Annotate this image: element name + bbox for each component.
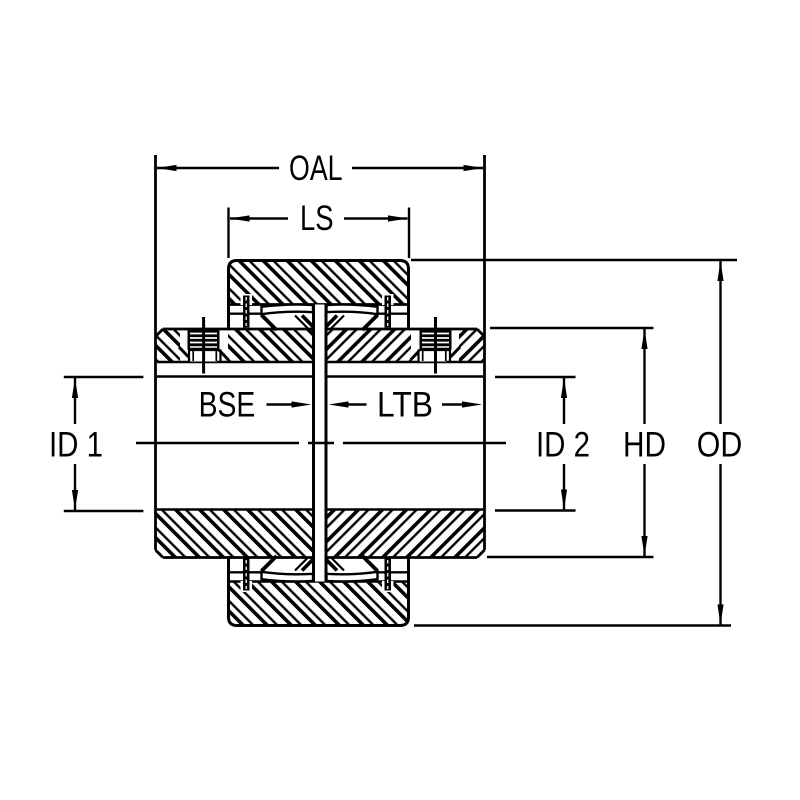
cavity line B bottom <box>229 571 263 573</box>
bottom cover inner line <box>229 580 409 583</box>
OD dimension <box>411 260 742 626</box>
bolt left threads <box>188 330 220 350</box>
tooth diagonal D2 top-right <box>331 316 344 329</box>
tooth diagonal D1 bottom-right <box>363 556 378 571</box>
svg-text:ID 2: ID 2 <box>536 426 590 465</box>
LS dimension <box>229 199 410 258</box>
cavity line B top <box>229 313 263 315</box>
halo hatch stubs left <box>179 347 189 357</box>
hub left face <box>154 155 157 550</box>
tooth diagonal D1 top-right <box>363 315 378 330</box>
LTB label and arrows <box>329 385 483 424</box>
bolt right threads <box>420 330 452 350</box>
tooth diagonal D2 bottom-left <box>295 558 308 571</box>
chamfer top-left <box>156 329 164 337</box>
ID 1 dimension <box>49 377 143 511</box>
cavity line A top <box>229 303 408 305</box>
chamfer bottom-left <box>156 550 164 558</box>
top cover hatched body <box>229 261 409 305</box>
flange bottom edge line <box>163 556 312 559</box>
chamfer bottom-right <box>477 550 485 558</box>
seal slot white top-left <box>241 294 253 305</box>
svg-text:OAL: OAL <box>289 149 343 188</box>
tooth diagonal D1 top-left <box>262 315 277 330</box>
bolt right centerline <box>434 317 437 374</box>
seal bar top-right <box>385 296 392 328</box>
hub flange bottom-right hatch <box>328 510 485 558</box>
svg-text:HD: HD <box>623 426 666 465</box>
hub flange top-left hatch <box>156 329 313 362</box>
OAL dimension <box>157 149 484 188</box>
center gap strip <box>315 305 325 582</box>
bore bottom line <box>157 508 312 511</box>
bore top line <box>157 375 312 378</box>
grid arc top-left <box>262 305 314 315</box>
tooth diagonal D2 top-left <box>295 316 308 329</box>
grid arc bottom-right <box>327 572 378 582</box>
halo hatch stubs right <box>451 347 461 357</box>
bolt left centerline <box>202 317 205 374</box>
BSE label and arrow <box>199 385 312 424</box>
grid arc top-right <box>327 305 378 315</box>
ID 2 dimension <box>495 377 590 511</box>
seal slot white top-right <box>382 294 394 305</box>
bolt halo left white <box>180 329 228 362</box>
seal slot white bottom-left <box>241 581 253 592</box>
seal bar bottom-left <box>243 559 250 591</box>
bottom cover hatched body <box>229 582 409 626</box>
flange top edge line <box>163 328 312 331</box>
hub right face <box>483 155 486 550</box>
svg-text:LTB: LTB <box>377 385 433 424</box>
bottom cover outline <box>229 556 409 626</box>
grid arc bottom-left <box>262 572 314 582</box>
hub flange top-right hatch <box>328 329 485 362</box>
keyway bottom line <box>157 361 312 364</box>
seal slot white bottom-right <box>382 581 394 592</box>
svg-text:OD: OD <box>697 426 743 465</box>
tooth diagonal D2 bottom-right <box>331 558 344 571</box>
HD dimension <box>487 328 666 557</box>
seal bar top-left <box>243 296 250 328</box>
svg-text:ID 1: ID 1 <box>49 426 103 465</box>
chamfer top-right <box>477 329 485 337</box>
bolt halo right white <box>411 329 459 362</box>
svg-text:BSE: BSE <box>199 385 256 424</box>
svg-text:LS: LS <box>300 199 334 238</box>
centerline axis <box>136 442 299 444</box>
bolt right washer <box>419 350 451 362</box>
tooth diagonal D1 bottom-left <box>262 556 277 571</box>
top cover outline <box>229 261 409 331</box>
bolt left washer <box>189 350 221 362</box>
hub flange bottom-left hatch <box>156 510 313 558</box>
seal bar bottom-right <box>385 559 392 591</box>
top cover inner line <box>229 303 409 306</box>
